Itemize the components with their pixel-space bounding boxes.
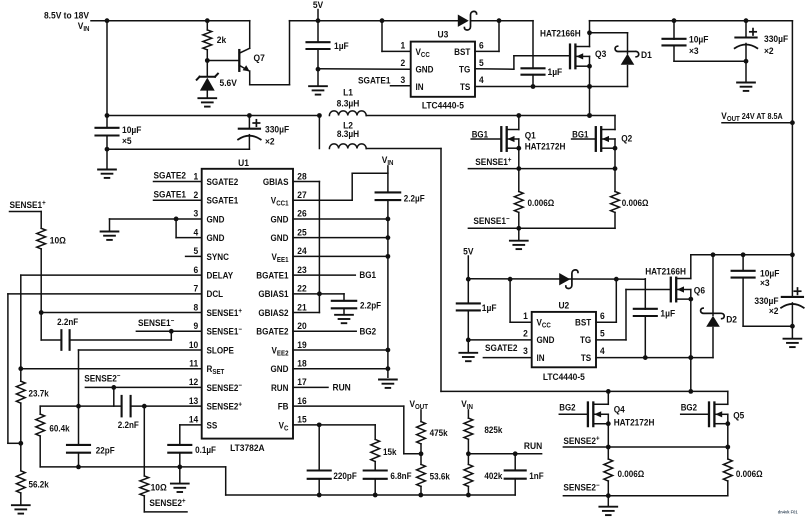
svg-text:RUN: RUN bbox=[271, 382, 289, 393]
svg-text:3: 3 bbox=[523, 346, 528, 357]
svg-text:SENSE2−: SENSE2− bbox=[563, 482, 599, 493]
svg-text:16: 16 bbox=[297, 395, 306, 406]
svg-text:GBIAS2: GBIAS2 bbox=[258, 307, 288, 318]
svg-text:5: 5 bbox=[193, 246, 198, 257]
svg-text:2.2nF: 2.2nF bbox=[57, 317, 78, 328]
svg-text:3: 3 bbox=[193, 208, 198, 219]
svg-text:23.7k: 23.7k bbox=[29, 388, 49, 399]
svg-text:SYNC: SYNC bbox=[207, 251, 230, 262]
svg-text:15k: 15k bbox=[383, 446, 397, 457]
svg-text:U2: U2 bbox=[558, 300, 569, 311]
svg-text:15: 15 bbox=[297, 414, 306, 425]
svg-text:BG2: BG2 bbox=[681, 402, 698, 413]
svg-text:SENSE1+: SENSE1+ bbox=[10, 199, 46, 210]
svg-text:BG1: BG1 bbox=[572, 129, 589, 140]
svg-text:1µF: 1µF bbox=[548, 67, 563, 78]
svg-text:6.8nF: 6.8nF bbox=[390, 471, 411, 482]
svg-text:SENSE1+: SENSE1+ bbox=[207, 307, 243, 318]
svg-text:5V: 5V bbox=[313, 0, 323, 10]
svg-text:402k: 402k bbox=[484, 471, 502, 482]
svg-text:×5: ×5 bbox=[122, 136, 132, 147]
svg-text:SGATE2: SGATE2 bbox=[207, 176, 239, 187]
svg-text:SENSE1−: SENSE1− bbox=[138, 317, 174, 328]
svg-text:3: 3 bbox=[400, 74, 405, 85]
svg-text:6: 6 bbox=[193, 264, 198, 275]
svg-text:1µF: 1µF bbox=[660, 308, 675, 319]
svg-text:0.006Ω: 0.006Ω bbox=[736, 468, 763, 479]
svg-text:DCL: DCL bbox=[207, 289, 224, 300]
svg-text:56.2k: 56.2k bbox=[29, 479, 49, 490]
svg-text:GND: GND bbox=[271, 233, 289, 244]
svg-text:2: 2 bbox=[400, 58, 405, 69]
svg-text:22pF: 22pF bbox=[96, 445, 115, 456]
svg-text:7: 7 bbox=[193, 283, 198, 294]
svg-text:LT3782A: LT3782A bbox=[230, 442, 265, 453]
svg-text:U1: U1 bbox=[238, 157, 249, 168]
svg-text:5: 5 bbox=[479, 58, 484, 69]
svg-text:TS: TS bbox=[581, 352, 592, 363]
svg-text:BGATE1: BGATE1 bbox=[256, 270, 288, 281]
svg-text:×2: ×2 bbox=[265, 136, 275, 147]
svg-text:FB: FB bbox=[278, 401, 289, 412]
svg-text:HAT2166H: HAT2166H bbox=[540, 28, 581, 39]
svg-text:×2: ×2 bbox=[764, 46, 774, 57]
svg-text:SGATE2: SGATE2 bbox=[154, 170, 187, 181]
svg-text:SENSE1−: SENSE1− bbox=[207, 326, 243, 337]
svg-text:8: 8 bbox=[193, 302, 198, 313]
svg-text:TS: TS bbox=[460, 82, 471, 93]
svg-text:D1: D1 bbox=[641, 50, 652, 61]
svg-text:SENSE2+: SENSE2+ bbox=[563, 435, 599, 446]
svg-text:330µF: 330µF bbox=[764, 34, 789, 45]
svg-text:GND: GND bbox=[271, 364, 289, 375]
svg-text:GND: GND bbox=[207, 233, 225, 244]
svg-text:20: 20 bbox=[297, 321, 306, 332]
svg-text:SLOPE: SLOPE bbox=[207, 345, 235, 356]
svg-text:×2: ×2 bbox=[769, 305, 779, 316]
svg-text:BG2: BG2 bbox=[559, 402, 576, 413]
svg-text:24: 24 bbox=[297, 246, 306, 257]
svg-text:2.2µF: 2.2µF bbox=[404, 193, 425, 204]
svg-text:8.3µH: 8.3µH bbox=[337, 128, 359, 139]
svg-text:10: 10 bbox=[189, 339, 198, 350]
svg-text:SENSE2−: SENSE2− bbox=[84, 373, 120, 384]
svg-text:BST: BST bbox=[454, 47, 471, 58]
svg-text:23: 23 bbox=[297, 264, 306, 275]
svg-text:BG2: BG2 bbox=[360, 326, 377, 337]
svg-text:25: 25 bbox=[297, 227, 306, 238]
svg-text:RUN: RUN bbox=[524, 441, 542, 452]
svg-text:GBIAS1: GBIAS1 bbox=[258, 289, 288, 300]
svg-text:SENSE1−: SENSE1− bbox=[473, 215, 509, 226]
svg-text:475k: 475k bbox=[430, 428, 448, 439]
svg-text:5.6V: 5.6V bbox=[220, 78, 237, 89]
svg-text:SENSE2+: SENSE2+ bbox=[149, 497, 185, 508]
svg-text:Q2: Q2 bbox=[621, 133, 632, 144]
svg-text:HAT2166H: HAT2166H bbox=[645, 266, 686, 277]
svg-text:2.2nF: 2.2nF bbox=[118, 420, 139, 431]
svg-text:U3: U3 bbox=[438, 29, 449, 40]
svg-text:0.006Ω: 0.006Ω bbox=[528, 198, 555, 209]
svg-text:0.006Ω: 0.006Ω bbox=[622, 198, 649, 209]
svg-text:Q3: Q3 bbox=[595, 49, 606, 60]
svg-text:×3: ×3 bbox=[689, 45, 699, 56]
svg-text:2k: 2k bbox=[217, 35, 227, 46]
svg-text:825k: 825k bbox=[484, 424, 502, 435]
svg-text:26: 26 bbox=[297, 208, 306, 219]
svg-text:GBIAS: GBIAS bbox=[263, 176, 289, 187]
svg-text:9: 9 bbox=[193, 321, 198, 332]
svg-text:dn4vk F01: dn4vk F01 bbox=[778, 509, 798, 514]
svg-text:SENSE2−: SENSE2− bbox=[207, 382, 243, 393]
svg-text:8.5V to 18V: 8.5V to 18V bbox=[44, 10, 89, 21]
svg-text:60.4k: 60.4k bbox=[49, 423, 69, 434]
svg-text:28: 28 bbox=[297, 171, 306, 182]
svg-text:GND: GND bbox=[537, 335, 555, 346]
svg-text:5V: 5V bbox=[463, 246, 473, 257]
svg-text:21: 21 bbox=[297, 302, 306, 313]
svg-text:6: 6 bbox=[479, 40, 484, 51]
svg-text:0.006Ω: 0.006Ω bbox=[618, 468, 645, 479]
svg-text:IN: IN bbox=[416, 82, 424, 93]
svg-text:GND: GND bbox=[416, 64, 434, 75]
svg-text:4: 4 bbox=[479, 74, 484, 85]
svg-text:27: 27 bbox=[297, 190, 306, 201]
svg-text:×3: ×3 bbox=[760, 278, 770, 289]
svg-text:SGATE1: SGATE1 bbox=[154, 189, 187, 200]
svg-text:BGATE2: BGATE2 bbox=[256, 326, 288, 337]
svg-text:1: 1 bbox=[523, 310, 528, 321]
svg-text:2.2pF: 2.2pF bbox=[360, 300, 381, 311]
svg-text:Q1: Q1 bbox=[525, 130, 536, 141]
svg-text:IN: IN bbox=[537, 352, 545, 363]
svg-text:1µF: 1µF bbox=[334, 41, 349, 52]
svg-text:0.1µF: 0.1µF bbox=[195, 445, 216, 456]
svg-text:GND: GND bbox=[207, 214, 225, 225]
svg-text:BG1: BG1 bbox=[472, 129, 489, 140]
svg-text:220pF: 220pF bbox=[333, 471, 356, 482]
svg-text:4: 4 bbox=[193, 227, 198, 238]
svg-text:2: 2 bbox=[193, 190, 198, 201]
svg-text:4: 4 bbox=[600, 346, 605, 357]
svg-text:SGATE1: SGATE1 bbox=[358, 75, 391, 86]
svg-text:13: 13 bbox=[189, 395, 198, 406]
svg-text:TG: TG bbox=[459, 64, 470, 75]
svg-text:BST: BST bbox=[575, 317, 592, 328]
svg-text:10Ω: 10Ω bbox=[151, 482, 167, 493]
svg-text:6: 6 bbox=[600, 310, 605, 321]
svg-text:SGATE2: SGATE2 bbox=[485, 343, 518, 354]
svg-text:DELAY: DELAY bbox=[207, 270, 234, 281]
svg-text:22: 22 bbox=[297, 283, 306, 294]
svg-text:1µF: 1µF bbox=[482, 302, 497, 313]
svg-text:12: 12 bbox=[189, 377, 198, 388]
svg-text:18: 18 bbox=[297, 358, 306, 369]
svg-text:Q5: Q5 bbox=[733, 410, 744, 421]
svg-text:L1: L1 bbox=[343, 87, 353, 98]
svg-text:1: 1 bbox=[193, 171, 198, 182]
svg-text:SENSE2+: SENSE2+ bbox=[207, 401, 243, 412]
svg-text:Q7: Q7 bbox=[254, 53, 265, 64]
svg-text:10Ω: 10Ω bbox=[50, 235, 66, 246]
svg-text:17: 17 bbox=[297, 377, 306, 388]
svg-text:D2: D2 bbox=[726, 314, 737, 325]
svg-text:RUN: RUN bbox=[333, 382, 351, 393]
svg-text:SGATE1: SGATE1 bbox=[207, 195, 239, 206]
svg-text:19: 19 bbox=[297, 339, 306, 350]
svg-text:GND: GND bbox=[271, 214, 289, 225]
svg-text:Q6: Q6 bbox=[694, 285, 705, 296]
svg-text:1nF: 1nF bbox=[529, 471, 543, 482]
svg-text:SENSE1+: SENSE1+ bbox=[475, 156, 511, 167]
svg-text:10µF: 10µF bbox=[122, 125, 142, 136]
svg-text:LTC4440-5: LTC4440-5 bbox=[543, 371, 585, 382]
svg-text:10µF: 10µF bbox=[689, 34, 709, 45]
svg-text:Q4: Q4 bbox=[614, 404, 625, 415]
svg-text:5: 5 bbox=[600, 328, 605, 339]
svg-text:1: 1 bbox=[400, 40, 405, 51]
svg-text:LTC4440-5: LTC4440-5 bbox=[422, 100, 464, 111]
svg-text:14: 14 bbox=[189, 414, 198, 425]
svg-text:TG: TG bbox=[580, 335, 591, 346]
svg-text:2: 2 bbox=[523, 328, 528, 339]
svg-text:8.3µH: 8.3µH bbox=[337, 98, 360, 109]
svg-text:53.6k: 53.6k bbox=[430, 471, 450, 482]
svg-text:BG1: BG1 bbox=[359, 270, 376, 281]
svg-text:HAT2172H: HAT2172H bbox=[525, 141, 566, 152]
svg-text:330µF: 330µF bbox=[265, 124, 290, 135]
svg-text:HAT2172H: HAT2172H bbox=[614, 417, 655, 428]
svg-text:SS: SS bbox=[207, 420, 218, 431]
svg-text:11: 11 bbox=[189, 358, 198, 369]
